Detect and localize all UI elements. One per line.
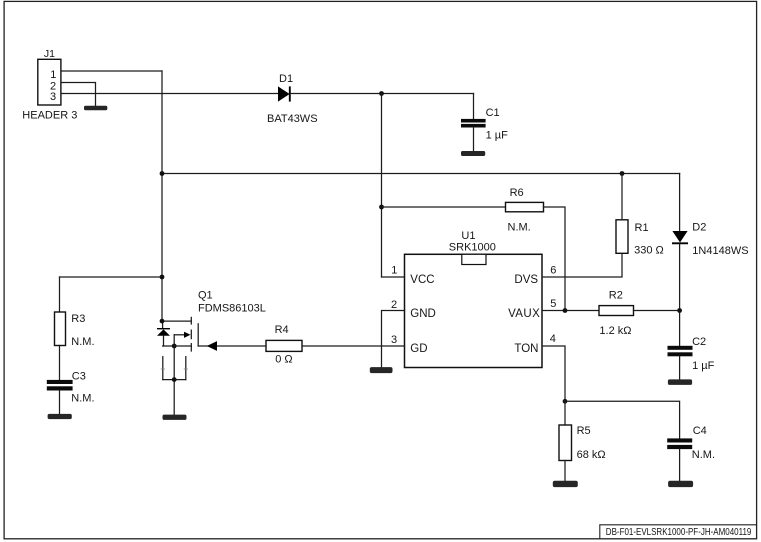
wire R5 bottom lead bbox=[564, 461, 566, 481]
wire GD pin to R4 bbox=[302, 345, 405, 347]
svg-text:J1: J1 bbox=[44, 48, 55, 60]
wire TON pin lead bbox=[543, 346, 566, 401]
svg-text:6: 6 bbox=[550, 264, 556, 276]
svg-text:R3: R3 bbox=[71, 313, 85, 325]
capacitor C2 bbox=[668, 346, 693, 357]
wire J1 pin2 horizontal bbox=[61, 83, 96, 106]
ground (C2) bbox=[668, 379, 692, 385]
svg-text:N.M.: N.M. bbox=[508, 221, 531, 233]
diode D2 bbox=[672, 231, 688, 243]
resistor R3 bbox=[55, 312, 66, 346]
wire VAUX pin to R2 bbox=[543, 310, 600, 312]
ground (C1) bbox=[461, 151, 485, 156]
svg-text:R4: R4 bbox=[275, 324, 289, 336]
svg-text:C2: C2 bbox=[692, 336, 706, 348]
wire C2 bottom lead bbox=[679, 356, 681, 379]
svg-text:R5: R5 bbox=[577, 425, 591, 437]
junction Q1 prongs bbox=[172, 377, 177, 382]
resistor R5 bbox=[559, 425, 572, 461]
svg-text:330 Ω: 330 Ω bbox=[634, 245, 664, 257]
resistor R1 bbox=[616, 220, 628, 254]
wire R1 top lead bbox=[621, 174, 623, 220]
svg-text:BAT43WS: BAT43WS bbox=[267, 113, 318, 125]
svg-text:DB-F01-EVLSRK1000-PF-JH-AM0401: DB-F01-EVLSRK1000-PF-JH-AM040119 bbox=[606, 526, 752, 537]
wire TON net to C4 bbox=[565, 401, 680, 438]
wire C4 bottom lead bbox=[679, 449, 681, 481]
junction left bus / long net bbox=[160, 171, 165, 176]
ground (C3) bbox=[48, 414, 72, 419]
wire R6 left bbox=[382, 206, 506, 208]
wire D2 cathode down to C2 bbox=[679, 244, 681, 346]
svg-text:TON: TON bbox=[514, 343, 538, 355]
svg-text:SRK1000: SRK1000 bbox=[449, 242, 496, 254]
svg-text:Q1: Q1 bbox=[198, 290, 213, 302]
svg-text:R2: R2 bbox=[609, 290, 623, 302]
junction TON net split bbox=[563, 399, 568, 404]
ground (R5) bbox=[553, 481, 578, 487]
wire R2 right bbox=[634, 310, 680, 312]
wire Q1 source down bbox=[173, 346, 175, 415]
svg-text:GD: GD bbox=[410, 343, 427, 355]
svg-text:N.M.: N.M. bbox=[71, 336, 94, 348]
wire VCC rail vertical x=381.5 bbox=[381, 94, 383, 278]
svg-text:C1: C1 bbox=[486, 107, 500, 119]
resistor R2 bbox=[599, 306, 634, 316]
svg-text:1: 1 bbox=[50, 69, 56, 81]
svg-text:GND: GND bbox=[410, 308, 436, 320]
wire R3 to C3 bbox=[59, 346, 61, 381]
svg-text:R6: R6 bbox=[510, 187, 524, 199]
svg-text:0 Ω: 0 Ω bbox=[275, 354, 292, 366]
junction left bus / R3 bbox=[160, 275, 165, 280]
wire J1 pin3 to D1 anode bbox=[61, 93, 278, 95]
wire R3 top lead bbox=[59, 277, 61, 312]
svg-text:1.2 kΩ: 1.2 kΩ bbox=[599, 325, 631, 337]
svg-text:5: 5 bbox=[550, 298, 556, 310]
svg-text:1 µF: 1 µF bbox=[692, 360, 715, 372]
svg-text:VCC: VCC bbox=[410, 274, 434, 286]
junction VCC / R6 node bbox=[379, 205, 384, 210]
junction R2 / D2 net bbox=[677, 308, 682, 313]
wire C3 bottom lead bbox=[59, 391, 61, 414]
junction Q1 source bar bbox=[172, 344, 177, 349]
ground (C4) bbox=[668, 481, 693, 487]
Q1 package pins prongs bbox=[161, 357, 188, 380]
junction VCC rail top bbox=[379, 91, 384, 96]
wire D2 branch vertical bbox=[679, 174, 681, 232]
svg-text:N.M.: N.M. bbox=[692, 449, 715, 461]
svg-text:D2: D2 bbox=[692, 222, 706, 234]
svg-text:VAUX: VAUX bbox=[508, 308, 540, 320]
junction R1 top bbox=[620, 171, 625, 176]
wire R6 right to VAUX bbox=[544, 207, 566, 311]
svg-text:1 µF: 1 µF bbox=[486, 130, 509, 142]
svg-text:N.M.: N.M. bbox=[71, 393, 94, 405]
op-amp U1 box bbox=[405, 254, 543, 367]
junction Q1 drain bbox=[160, 319, 165, 324]
svg-text:2: 2 bbox=[391, 299, 397, 311]
svg-text:HEADER 3: HEADER 3 bbox=[22, 110, 77, 122]
svg-text:3: 3 bbox=[50, 91, 56, 103]
wire left vertical bus x=162 bbox=[161, 71, 163, 321]
svg-text:D1: D1 bbox=[279, 73, 293, 85]
svg-text:1: 1 bbox=[391, 265, 397, 277]
wire R3 branch horizontal bbox=[60, 276, 163, 278]
svg-text:68 kΩ: 68 kΩ bbox=[577, 449, 606, 461]
resistor R6 bbox=[506, 202, 544, 211]
capacitor C3 bbox=[47, 380, 73, 391]
wire R4 to Q1 gate bbox=[198, 345, 266, 347]
capacitor C1 bbox=[461, 119, 486, 128]
wire D1 cathode to C1 corner bbox=[291, 93, 474, 95]
svg-text:DVS: DVS bbox=[514, 274, 538, 286]
svg-text:U1: U1 bbox=[461, 230, 475, 242]
arrow on gate wire bbox=[207, 341, 217, 351]
wire long horizontal net y=173.5 bbox=[162, 173, 680, 175]
title block cell bbox=[600, 525, 756, 539]
wire R5 top lead bbox=[564, 401, 566, 425]
wire C1 bottom lead bbox=[473, 128, 475, 152]
wire C1 top lead bbox=[473, 94, 475, 120]
svg-text:4: 4 bbox=[550, 333, 556, 345]
ground (Q1 source) bbox=[163, 415, 187, 420]
svg-text:R1: R1 bbox=[635, 222, 649, 234]
svg-text:C3: C3 bbox=[72, 370, 86, 382]
wire DVS pin to R1 bbox=[543, 253, 623, 277]
transistor Q1 bbox=[157, 317, 198, 351]
svg-text:1N4148WS: 1N4148WS bbox=[692, 245, 748, 257]
ground (J1 pin2) bbox=[84, 106, 107, 111]
capacitor C4 bbox=[667, 438, 692, 449]
svg-text:C4: C4 bbox=[693, 425, 707, 437]
connector J1 bbox=[38, 59, 61, 105]
junction R6 / VAUX bbox=[563, 308, 568, 313]
svg-text:3: 3 bbox=[391, 334, 397, 346]
wire J1 pin1 horizontal bbox=[61, 70, 162, 72]
wire GND pin lead bbox=[382, 311, 405, 368]
ground (U1 GND) bbox=[370, 367, 393, 373]
diode D1 bbox=[278, 86, 290, 101]
wire VCC pin lead bbox=[382, 276, 405, 278]
resistor R4 bbox=[266, 340, 302, 351]
svg-text:FDMS86103L: FDMS86103L bbox=[198, 302, 266, 314]
